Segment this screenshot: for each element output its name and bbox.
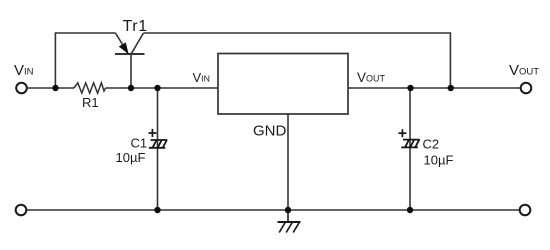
svg-text:GND: GND: [253, 123, 287, 140]
transistor Q1 emitter line: [116, 33, 129, 54]
ground symbol: [278, 210, 301, 233]
terminal: Vin input (open circle, top left): [16, 83, 27, 94]
node: C1 bottom junction: [154, 207, 160, 213]
resistor R1: [74, 83, 106, 93]
transistor Q1 emitter arrow: [120, 43, 128, 53]
svg-text:10µF: 10µF: [116, 150, 146, 165]
transistor Q1 collector line: [132, 33, 144, 53]
wire: regulator GND pin down to ground rail: [287, 114, 289, 210]
node: Vin junction at riser: [52, 85, 58, 91]
node: C2 bottom junction: [407, 207, 413, 213]
wire: top rail right (regulator Vout pin to Vout terminal): [348, 87, 521, 89]
svg-text:R1: R1: [82, 95, 99, 110]
capacitor C1 symbol (polarized, hatched plate): [149, 140, 168, 148]
wire: C1 branch: [157, 88, 159, 210]
node: C1 top junction: [154, 85, 160, 91]
wire: top rail left (Vin terminal to regulator Vin pin): [27, 87, 218, 89]
wire: transistor base lead: [130, 54, 132, 88]
wire: left riser from Vin node up to transistor emitter: [55, 33, 115, 88]
terminal: Vout output (open circle, top right): [521, 83, 532, 94]
wire: C2 branch: [409, 88, 411, 210]
op-amp U1 regulator box: [218, 54, 348, 115]
capacitor C2 plus polarity mark: [398, 129, 406, 137]
svg-text:Tr1: Tr1: [123, 18, 148, 35]
wire: bottom ground rail: [27, 209, 520, 211]
svg-text:C2: C2: [423, 137, 440, 152]
svg-text:VOUT: VOUT: [357, 70, 386, 85]
node: C2 top junction: [407, 85, 413, 91]
svg-text:C1: C1: [131, 136, 148, 151]
node: ground junction: [285, 207, 291, 213]
capacitor C2 symbol (polarized, hatched plate): [401, 140, 420, 148]
terminal: ground return (open circle, bottom right): [520, 205, 531, 216]
wire: transistor collector to output drop: [144, 33, 451, 88]
svg-text:VOUT: VOUT: [509, 62, 539, 79]
svg-text:VIN: VIN: [14, 62, 34, 79]
svg-text:10µF: 10µF: [424, 152, 454, 167]
svg-text:VIN: VIN: [193, 70, 210, 85]
transistor Q1 base bar: [115, 53, 145, 55]
capacitor C1 plus polarity mark: [148, 129, 156, 137]
node: output drop junction: [448, 85, 454, 91]
node: transistor base junction: [128, 85, 134, 91]
terminal: ground return (open circle, bottom left): [16, 205, 27, 216]
